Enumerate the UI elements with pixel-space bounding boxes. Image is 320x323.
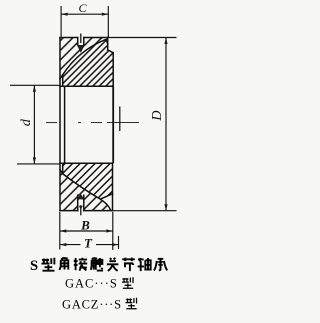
groove pinch blob bottom xyxy=(79,206,83,210)
inner ring lower half hatch xyxy=(63,163,113,199)
svg-text:D: D xyxy=(150,110,165,121)
svg-text:C: C xyxy=(78,1,87,15)
groove center tick top xyxy=(80,34,82,44)
svg-text:B: B xyxy=(80,218,90,233)
bearing outline upper half xyxy=(60,38,113,87)
B arrowhead right xyxy=(106,229,113,232)
left face xyxy=(59,38,61,87)
C arrowhead left xyxy=(61,13,68,16)
svg-text:T: T xyxy=(84,236,93,251)
d arrowhead top xyxy=(33,85,36,92)
C arrowhead right xyxy=(102,13,109,16)
bore top edge xyxy=(60,85,113,87)
outer ring right face xyxy=(107,38,109,50)
svg-text:GAC···S: GAC···S xyxy=(65,277,118,291)
top edge xyxy=(60,37,78,39)
left face xyxy=(59,163,61,210)
svg-text:GACZ···S: GACZ···S xyxy=(62,298,122,312)
bearing outline lower half xyxy=(60,163,113,210)
d arrowhead bottom xyxy=(33,157,36,164)
inner ring recessed left face xyxy=(62,75,64,87)
svg-text:S: S xyxy=(30,258,38,274)
groove walls top xyxy=(77,38,79,45)
outer ring upper half hatch xyxy=(60,38,108,79)
groove V notch top xyxy=(78,45,84,51)
outer ring lower half hatch xyxy=(60,170,111,211)
groove walls bottom xyxy=(77,195,79,210)
chamfer slant xyxy=(108,50,114,53)
D arrowhead bottom xyxy=(164,204,167,211)
inner ring right face xyxy=(112,53,114,87)
bore silhouette verticals xyxy=(60,86,113,163)
groove center tick bottom xyxy=(80,205,82,215)
dimension D xyxy=(108,38,177,211)
sphere center tick xyxy=(119,107,121,132)
B arrowhead left xyxy=(60,229,67,232)
dimension C xyxy=(61,6,108,37)
sphere curve bottom xyxy=(60,170,111,210)
inner ring upper half hatch xyxy=(63,39,113,86)
sphere curve top xyxy=(60,39,108,79)
T arrowhead right xyxy=(112,243,119,246)
centerline dash-dot xyxy=(46,107,139,132)
inner ring right face xyxy=(112,163,114,210)
dimension d xyxy=(10,85,60,164)
groove V notch bottom xyxy=(78,195,84,199)
dimension T xyxy=(60,236,119,249)
T arrowhead left xyxy=(60,243,67,246)
bottom edge xyxy=(60,210,78,212)
chamfer slant bottom xyxy=(102,194,113,199)
inner ring recessed left face xyxy=(62,163,64,173)
svg-text:d: d xyxy=(19,118,34,126)
bore bottom edge xyxy=(60,162,113,164)
D arrowhead top xyxy=(164,38,167,45)
dimension B xyxy=(60,212,113,250)
